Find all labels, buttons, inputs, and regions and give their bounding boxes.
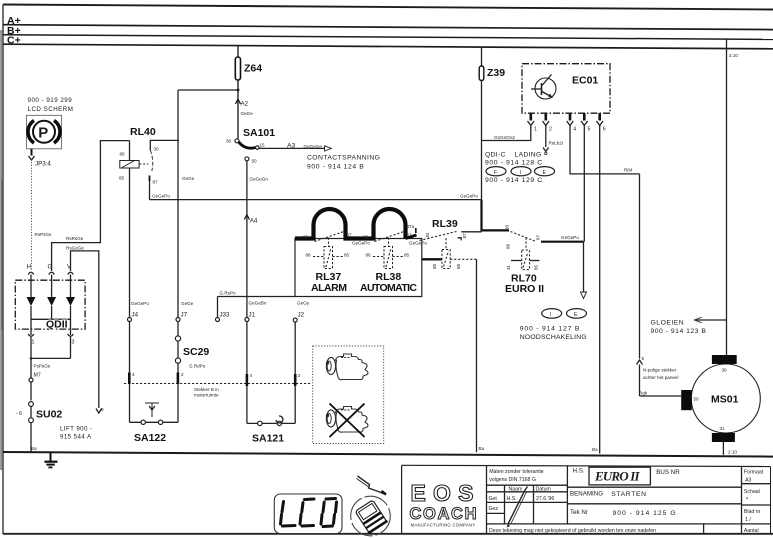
svg-text:Ba: Ba <box>592 447 598 452</box>
pencil icon <box>507 487 528 528</box>
engine symbol <box>326 354 368 380</box>
svg-text:AUTOMATIC: AUTOMATIC <box>360 282 417 294</box>
svg-text:STARTEN: STARTEN <box>611 491 646 498</box>
text LIFT 900 - 915 544 A <box>60 426 92 441</box>
svg-text:CONTACTSPANNING: CONTACTSPANNING <box>307 155 380 162</box>
svg-text:RsRsGe: RsRsGe <box>66 236 84 241</box>
connector SU02 <box>16 402 62 423</box>
wire SU02 to ground bus <box>30 423 32 453</box>
svg-text:900 - 914 128 C: 900 - 914 128 C <box>485 160 543 167</box>
svg-text:J4: J4 <box>132 312 139 319</box>
svg-text:EOS: EOS <box>411 480 477 506</box>
wire Z64 junction to GeGe riser <box>178 89 238 91</box>
svg-text:86: 86 <box>456 263 461 269</box>
gloeien reference arrow <box>651 317 727 335</box>
svg-text:85: 85 <box>344 253 350 258</box>
svg-text:GeGeBn: GeGeBn <box>249 301 267 306</box>
switch SA121 <box>246 322 301 445</box>
transistor inside EC01 <box>531 75 556 100</box>
svg-text:87: 87 <box>462 233 467 239</box>
svg-text:9: 9 <box>101 407 104 412</box>
wire RsRsGe QDII G to RL40 <box>52 141 130 271</box>
title block frame <box>402 465 771 534</box>
svg-text:H.S.: H.S. <box>573 468 585 475</box>
svg-text:NOODSCHAKELING: NOODSCHAKELING <box>520 334 587 341</box>
svg-text:30: 30 <box>303 235 309 240</box>
relay RL40 <box>119 126 179 200</box>
EC01 pin 2 <box>543 113 553 132</box>
ground <box>44 453 57 468</box>
svg-text:MS01: MS01 <box>711 394 739 406</box>
wire RL40-85 GeGePo down to J4 <box>130 141 150 318</box>
svg-text:J7: J7 <box>181 312 188 319</box>
svg-text:915 544 A: 915 544 A <box>60 434 92 441</box>
svg-text:3: 3 <box>72 340 75 346</box>
wire pin6 to ground bus <box>599 126 601 454</box>
svg-text:900 - 914 129 C: 900 - 914 129 C <box>485 177 543 184</box>
wire J4 to SA122 <box>129 322 131 421</box>
svg-text:ALARM: ALARM <box>311 282 347 294</box>
svg-text:G.RsPo: G.RsPo <box>220 291 237 296</box>
node H <box>27 264 34 275</box>
svg-text:Stekker B in: Stekker B in <box>194 387 219 392</box>
node 1 of QDII <box>28 334 34 346</box>
text 900-919 299 LCD SCHERM <box>28 97 74 113</box>
node J1 <box>245 301 267 322</box>
svg-text:30: 30 <box>722 368 728 373</box>
svg-text:86: 86 <box>306 253 312 258</box>
svg-text:50: 50 <box>694 397 700 402</box>
wire GeGePu RL70-87 <box>541 235 584 242</box>
svg-text:MANUFACTURING COMPANY: MANUFACTURING COMPANY <box>411 523 476 528</box>
svg-text:Aantal: Aantal <box>744 528 759 534</box>
svg-text:GeGeGn: GeGeGn <box>250 177 269 182</box>
svg-text:86: 86 <box>506 243 511 249</box>
LCD display symbol <box>274 494 342 534</box>
svg-text:GeGePo: GeGePo <box>352 241 370 246</box>
bus C+ <box>3 35 773 49</box>
node J7 <box>176 312 188 322</box>
svg-text:Tek Nr: Tek Nr <box>570 509 588 516</box>
svg-text:LADING: LADING <box>515 152 542 159</box>
svg-text:achter het paneel: achter het paneel <box>643 375 679 380</box>
svg-text:motorruimte: motorruimte <box>194 393 219 398</box>
bus A+ <box>3 15 773 30</box>
svg-text:SA101: SA101 <box>243 127 275 139</box>
svg-text:Schaal: Schaal <box>744 489 760 495</box>
svg-text:Formaat: Formaat <box>744 470 764 476</box>
svg-text:Ba: Ba <box>479 446 485 451</box>
wire B+ to MS01-30 <box>727 39 739 355</box>
svg-text:4: 4 <box>573 127 576 133</box>
svg-text:30: 30 <box>425 232 430 238</box>
svg-text:Deze tekening mag niet gekopi: Deze tekening mag niet gekopieerd of geb… <box>489 528 656 534</box>
relay RL37 <box>303 232 370 295</box>
svg-text:2:10: 2:10 <box>728 450 737 455</box>
svg-text:J2: J2 <box>298 312 305 319</box>
svg-text:3: 3 <box>298 373 301 378</box>
svg-text:A3: A3 <box>287 142 296 149</box>
svg-text:GeGe: GeGe <box>182 176 195 181</box>
svg-text:GeGePo: GeGePo <box>460 193 478 198</box>
bus B+ <box>3 25 773 39</box>
svg-text:30: 30 <box>363 235 369 240</box>
relay box RL37 RL38 <box>295 239 422 297</box>
svg-text:1 /: 1 / <box>745 517 751 523</box>
text noodschakeling <box>520 309 587 341</box>
svg-text:Z39: Z39 <box>487 67 505 79</box>
svg-text:900 - 914 125 G: 900 - 914 125 G <box>613 510 677 517</box>
svg-text:4: 4 <box>132 372 135 377</box>
svg-text:86: 86 <box>120 152 126 157</box>
node V <box>67 264 73 275</box>
svg-text:BUS NR: BUS NR <box>656 469 680 476</box>
node J2 <box>293 301 310 323</box>
EC01 pin 6 <box>596 113 605 132</box>
svg-text:SU02: SU02 <box>36 409 62 421</box>
svg-text:PsPsGs: PsPsGs <box>34 364 51 369</box>
svg-text:P: P <box>38 125 48 142</box>
svg-text:85: 85 <box>404 253 410 258</box>
wire A3 contactspanning <box>259 142 331 151</box>
wire GeGeGn SA101-50 down <box>247 161 268 318</box>
svg-text:GeGeGe: GeGeGe <box>304 144 323 149</box>
stekker B boundary <box>124 372 312 398</box>
svg-text:86: 86 <box>366 253 372 258</box>
svg-text:50: 50 <box>252 159 258 164</box>
ignition switch SA101 <box>226 127 275 164</box>
svg-text:GeGePu: GeGePu <box>561 235 579 240</box>
EC01 pin 1 <box>528 113 538 132</box>
svg-text:EURO II: EURO II <box>505 283 544 295</box>
relay RL38 <box>360 224 427 294</box>
svg-text:A2: A2 <box>241 101 249 108</box>
svg-text:85: 85 <box>432 263 437 269</box>
title note row <box>489 528 656 534</box>
svg-text:M7: M7 <box>34 373 41 379</box>
svg-text:A3: A3 <box>745 477 751 483</box>
diode block QDII <box>15 275 85 336</box>
svg-text:31: 31 <box>720 426 726 431</box>
wire pin2 stub RL32/1 <box>543 126 564 155</box>
svg-text:87: 87 <box>347 233 353 238</box>
wire pin5 to GeGePu node <box>583 126 585 242</box>
svg-text:SC29: SC29 <box>183 346 209 358</box>
svg-text:2: 2 <box>549 127 552 133</box>
text contactspanning <box>307 155 380 171</box>
svg-text:GeGy: GeGy <box>297 301 310 306</box>
svg-text:RL40: RL40 <box>130 126 156 138</box>
crank handle symbol <box>357 476 387 495</box>
svg-text:GeGePo: GeGePo <box>409 241 427 246</box>
node J33 <box>216 291 237 322</box>
title project row <box>567 467 741 517</box>
svg-text:87: 87 <box>407 233 413 238</box>
svg-text:A4: A4 <box>250 218 258 225</box>
svg-text:87: 87 <box>536 234 541 240</box>
svg-text:GeGe: GeGe <box>241 111 254 116</box>
svg-text:H.S.: H.S. <box>507 496 517 502</box>
svg-text:1: 1 <box>534 127 537 133</box>
svg-text:H: H <box>27 264 31 271</box>
svg-text:C+: C+ <box>7 35 21 47</box>
wire RsGeGe QDII V to SU02 side <box>66 245 104 413</box>
wire R64 pin4 to MS01-50 <box>570 126 681 397</box>
text QDI-C LADING ovals <box>485 152 555 185</box>
relay RL39 <box>416 218 482 269</box>
svg-text:5: 5 <box>588 127 591 133</box>
svg-text:N-polige stekker: N-polige stekker <box>643 368 677 373</box>
svg-text:30: 30 <box>505 224 510 230</box>
engine symbol box <box>313 346 384 444</box>
pushbutton SA122 <box>130 403 179 444</box>
svg-text:volgens DIN 7168 G: volgens DIN 7168 G <box>489 477 536 483</box>
svg-text:Get: Get <box>489 496 498 502</box>
svg-text:85: 85 <box>119 176 125 181</box>
fuse Z39 <box>479 48 505 200</box>
svg-text:RsGeGe: RsGeGe <box>66 245 84 250</box>
node JP3:4 <box>29 149 52 168</box>
wire GnGnGn2 pin1 <box>482 126 531 141</box>
svg-text:R64: R64 <box>624 168 633 173</box>
svg-text:- 6: - 6 <box>16 411 22 417</box>
svg-text:QDI-C: QDI-C <box>485 152 506 159</box>
node 3 of QDII <box>68 334 75 346</box>
EC01 pin 5 <box>581 113 591 132</box>
connector SC29 <box>175 322 209 421</box>
svg-text:J33: J33 <box>220 312 231 319</box>
engine symbol crossed <box>326 404 368 438</box>
svg-text:Gez: Gez <box>489 506 499 512</box>
wire RL39 coil to ground bus <box>477 259 485 452</box>
parking brake indicator symbol <box>27 115 62 149</box>
svg-text:2:10: 2:10 <box>729 53 738 58</box>
node A2 <box>236 99 254 116</box>
svg-text:900 - 914 124 B: 900 - 914 124 B <box>307 164 364 171</box>
EOS Coach logo <box>410 480 478 528</box>
svg-text:30: 30 <box>154 147 160 152</box>
fuse Z64 <box>235 46 262 139</box>
svg-text:GnGnGn2: GnGnGn2 <box>494 135 515 140</box>
svg-text:Rgk: Rgk <box>639 391 648 396</box>
svg-text:J1: J1 <box>249 312 256 319</box>
svg-text:Z64: Z64 <box>244 63 262 75</box>
wire RsPsGs P-symbol to QDII H <box>32 162 53 271</box>
svg-text:EURO II: EURO II <box>594 469 641 484</box>
svg-text:LCD SCHERM: LCD SCHERM <box>28 106 74 113</box>
jumper wire noodschakeling arcs <box>295 209 417 239</box>
svg-text:RL39: RL39 <box>432 218 458 230</box>
svg-text:27.6.'96: 27.6.'96 <box>536 496 554 502</box>
wire to noodschakeling arrow <box>581 242 587 299</box>
svg-text:BENAMING: BENAMING <box>570 490 603 497</box>
wire GeGePo RL40-87 to Z39 riser <box>150 193 482 199</box>
svg-text:900 - 919 299: 900 - 919 299 <box>28 97 73 104</box>
svg-text:F: F <box>494 170 497 176</box>
svg-text:31: 31 <box>506 264 511 270</box>
svg-text:GLOEIEN: GLOEIEN <box>651 320 685 327</box>
svg-text:LIFT 900 -: LIFT 900 - <box>60 426 92 433</box>
svg-text:I: I <box>550 312 551 318</box>
svg-text:E: E <box>574 312 578 318</box>
svg-text:G.RdPo: G.RdPo <box>189 364 206 369</box>
ground bus 31 <box>3 446 773 457</box>
svg-text:2: 2 <box>181 372 184 377</box>
svg-text:Blad nr: Blad nr <box>744 509 761 515</box>
towing truck symbol <box>351 496 391 536</box>
svg-text:1: 1 <box>32 340 35 346</box>
svg-text:EC01: EC01 <box>572 75 598 87</box>
node J4 <box>128 312 139 322</box>
ECU EC01 <box>522 64 610 113</box>
svg-text:I: I <box>520 170 521 176</box>
svg-text:E: E <box>543 170 547 176</box>
svg-text:15: 15 <box>260 142 266 147</box>
svg-text:COACH: COACH <box>410 505 478 523</box>
svg-text:JP3:4: JP3:4 <box>35 161 51 168</box>
EC01 pin 4 <box>567 113 577 132</box>
wire PsPsGs QDII to SU02 <box>29 337 71 401</box>
svg-text:30: 30 <box>226 139 232 144</box>
svg-text:Maten zonder tolerantie: Maten zonder tolerantie <box>489 469 544 475</box>
wire J33 branch from relay box <box>218 296 296 298</box>
svg-text:5: 5 <box>642 356 645 361</box>
node G <box>48 264 55 275</box>
svg-text:4: 4 <box>250 373 253 378</box>
svg-text:900 - 914 127 B: 900 - 914 127 B <box>520 326 580 333</box>
title right column <box>742 470 771 535</box>
svg-text:GeGePo: GeGePo <box>131 301 149 306</box>
wire Z39 riser to RL70 <box>482 200 510 231</box>
title middle column tolerances <box>487 469 568 524</box>
svg-text:GeGe: GeGe <box>181 301 194 306</box>
svg-text:G: G <box>48 264 53 271</box>
svg-text:QDII: QDII <box>46 319 68 331</box>
starter motor MS01 <box>681 355 760 455</box>
svg-text:SA121: SA121 <box>252 433 284 445</box>
wire GeGe Z64 to J7 <box>178 90 195 318</box>
relay RL70 <box>505 224 545 295</box>
svg-text:RsPsGs: RsPsGs <box>35 232 53 237</box>
svg-text:GeGePo: GeGePo <box>152 194 170 199</box>
svg-text:87a: 87a <box>407 224 415 229</box>
svg-text:SA122: SA122 <box>134 432 166 444</box>
svg-text:Ba: Ba <box>31 446 37 451</box>
svg-text:RsLb2t: RsLb2t <box>549 141 564 146</box>
svg-text:87: 87 <box>153 180 159 185</box>
svg-text:900 - 914 123 B: 900 - 914 123 B <box>651 328 707 335</box>
svg-text:85: 85 <box>534 264 539 270</box>
svg-text:6: 6 <box>603 127 606 133</box>
node A4 <box>244 215 258 225</box>
